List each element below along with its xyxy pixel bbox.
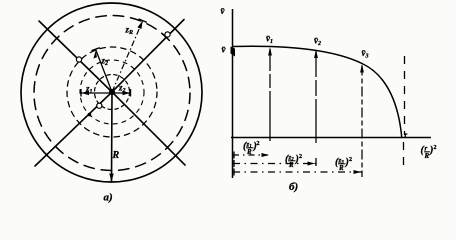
- arrow v2: [314, 50, 318, 59]
- svg-text:б): б): [289, 181, 298, 193]
- x-axis: [231, 137, 431, 139]
- vertical radius line R downward: [111, 92, 114, 181]
- svg-text:R: R: [246, 148, 252, 156]
- diagonal spoke up-right: [112, 20, 184, 93]
- svg-text:v̄1: v̄1: [266, 34, 273, 46]
- svg-text:z1: z1: [85, 84, 93, 96]
- ring marker up-left diagonal on middle circle: [76, 57, 81, 62]
- dimension z2 (right): [112, 89, 131, 97]
- ring marker up-right diagonal on z_R circle: [165, 32, 170, 37]
- dashed circle z_3 (middle): [67, 47, 157, 137]
- dashed vertical line at curve end: [404, 56, 406, 135]
- y-axis: [232, 9, 234, 178]
- arrow v3: [360, 64, 364, 73]
- svg-text:R: R: [338, 164, 344, 172]
- svg-text:v̄2: v̄2: [314, 36, 321, 48]
- velocity curve: [233, 46, 402, 138]
- label (r1/R)^2: [243, 141, 260, 157]
- svg-text:v̄: v̄: [221, 6, 226, 16]
- svg-text:v̄: v̄: [222, 45, 227, 55]
- svg-text:R: R: [288, 161, 294, 169]
- ring marker down-left diagonal on inner circle: [97, 103, 102, 108]
- thick mark at curve start on axis: [231, 47, 236, 57]
- svg-text:R: R: [424, 152, 430, 160]
- x-axis label (r/R)^2: [421, 145, 437, 161]
- label (r2/R)^2: [285, 154, 302, 170]
- figure (a): pipe cross-section with velocity circles: [21, 3, 202, 182]
- svg-text:zR: zR: [125, 25, 134, 37]
- dimension row 2: [233, 163, 316, 165]
- arrow v1: [268, 47, 272, 56]
- dimension row 3: [233, 171, 362, 173]
- dashed circle z_R: [34, 16, 190, 171]
- svg-text:R: R: [112, 150, 120, 161]
- dimension row 1: [233, 154, 268, 156]
- svg-text:v̄3: v̄3: [362, 48, 369, 60]
- svg-text:z2: z2: [101, 56, 109, 68]
- vertical line v1: [269, 49, 271, 141]
- svg-text:а): а): [104, 192, 113, 204]
- dashed circle z_2: [80, 60, 144, 124]
- svg-text:2: 2: [257, 141, 260, 147]
- svg-text:2: 2: [434, 145, 437, 151]
- arrowhead of R line: [109, 174, 113, 183]
- svg-text:2: 2: [349, 157, 352, 163]
- dashed circle z_1 (innermost): [95, 75, 130, 110]
- dimension z1 (left): [81, 89, 112, 97]
- dash-dot dimension z_R: [112, 19, 147, 92]
- svg-text:2: 2: [299, 154, 302, 160]
- diagonal spoke down-left: [35, 92, 112, 166]
- label (r3/R)^2: [335, 157, 352, 173]
- diagonal spoke up-left: [39, 21, 112, 92]
- dot marker down-left diagonal: [88, 113, 92, 117]
- diagonal spoke down-right: [112, 92, 185, 165]
- vertical line v3: [361, 66, 363, 178]
- outer pipe wall circle R: [21, 3, 202, 182]
- center hub dot: [109, 89, 115, 95]
- svg-text:r: r: [405, 131, 408, 139]
- dimension z2 (upper, to middle circle): [92, 48, 113, 92]
- svg-text:z2: z2: [118, 83, 126, 95]
- vertical line v2: [315, 51, 317, 143]
